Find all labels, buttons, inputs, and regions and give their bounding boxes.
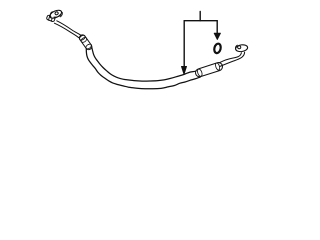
O-ring (213, 43, 221, 54)
left crimp collar (79, 34, 93, 50)
right crimp collar (196, 62, 223, 77)
arrowhead to O-ring (214, 33, 220, 39)
callout bracket right leg (216, 21, 218, 34)
arrowhead to hose (181, 66, 186, 74)
left fitting ring hole (55, 11, 59, 15)
tube from right collar to right fitting (219, 53, 241, 63)
right fitting eyelet ring (235, 44, 248, 52)
left fitting ring thickness contour (50, 12, 52, 17)
callout bracket left leg (183, 21, 185, 67)
right fitting ring hole (238, 46, 241, 49)
callout bracket horizontal (184, 20, 217, 22)
left fitting body (crimp nut) (46, 15, 55, 22)
hose top edge (91, 45, 198, 81)
hose bottom edge (86, 49, 200, 89)
hose main body fill (86, 45, 200, 89)
right fitting ring thickness contour (235, 45, 237, 50)
left fitting eyelet ring (49, 9, 63, 20)
tube from left fitting to left collar (57, 21, 81, 36)
callout bracket tick (199, 12, 201, 21)
